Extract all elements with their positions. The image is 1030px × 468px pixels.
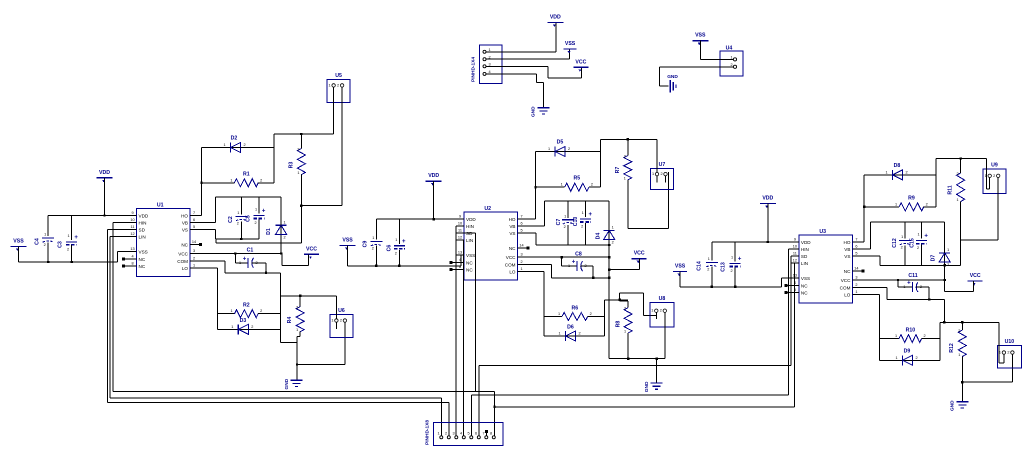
wire C15 top lead xyxy=(921,222,923,239)
svg-text:6: 6 xyxy=(855,245,857,249)
svg-text:2: 2 xyxy=(260,309,262,313)
svg-text:1: 1 xyxy=(548,147,550,151)
svg-text:13: 13 xyxy=(458,251,462,255)
power VSS (U3) xyxy=(673,264,687,277)
junction C2 bottom xyxy=(240,238,242,240)
svg-text:2: 2 xyxy=(660,309,662,313)
svg-text:NC: NC xyxy=(844,269,851,274)
diode D1 xyxy=(266,220,287,239)
svg-text:10: 10 xyxy=(130,218,134,222)
svg-text:+: + xyxy=(572,260,576,266)
svg-text:6: 6 xyxy=(520,222,522,226)
wire U2.VCC line xyxy=(525,256,609,258)
svg-text:7: 7 xyxy=(855,238,857,242)
junction D1/VCC xyxy=(280,252,282,254)
svg-text:LIN: LIN xyxy=(139,235,146,240)
junction C1/COM xyxy=(265,272,267,274)
wire bus A (HIN1) xyxy=(113,392,795,407)
power VCC (U3) xyxy=(968,273,983,286)
junction gnd2 drop xyxy=(655,358,657,360)
capacitor C4 xyxy=(35,233,55,248)
junction rail3/R11 xyxy=(959,157,961,159)
resistor R6 xyxy=(558,306,592,321)
svg-text:HIN: HIN xyxy=(466,224,474,229)
svg-text:C3: C3 xyxy=(58,241,64,248)
wire VS extension xyxy=(216,239,301,243)
junction C11 drop xyxy=(897,279,899,281)
svg-text:VDD: VDD xyxy=(99,170,110,176)
svg-text:U9: U9 xyxy=(991,162,998,168)
wire D4 cathode up xyxy=(608,201,610,230)
svg-text:12: 12 xyxy=(130,232,134,236)
wire pin8 drop xyxy=(494,407,496,436)
junction R3/U5.2 xyxy=(300,204,302,206)
wire VDD1 down xyxy=(104,178,106,216)
svg-text:2: 2 xyxy=(624,307,626,311)
svg-text:C9: C9 xyxy=(363,241,369,248)
capacitor C12 xyxy=(892,235,911,250)
svg-text:D4: D4 xyxy=(596,233,602,240)
diode D9 xyxy=(895,349,917,366)
svg-text:C13: C13 xyxy=(721,262,727,272)
svg-text:VS: VS xyxy=(509,231,515,236)
capacitor C8 xyxy=(568,252,587,272)
wire R12 top lead xyxy=(961,322,963,330)
svg-text:1: 1 xyxy=(855,290,857,294)
svg-text:SD: SD xyxy=(139,228,146,233)
svg-text:6: 6 xyxy=(193,218,195,222)
wire VCC1 loop xyxy=(282,254,308,266)
wire R11 top lead xyxy=(960,159,962,173)
wire U3.VB to rail xyxy=(860,222,945,249)
svg-text:VSS: VSS xyxy=(565,41,576,47)
wire VDD2 rail xyxy=(376,218,456,220)
wire U3.VS to caps xyxy=(860,256,961,265)
svg-text:HIN: HIN xyxy=(139,221,147,226)
svg-text:2: 2 xyxy=(296,306,298,310)
wire HO2 to R5.1 xyxy=(536,186,565,188)
junction C11/COM3 xyxy=(928,298,930,300)
wire C6 top lead xyxy=(398,219,400,244)
capacitor C11 xyxy=(903,273,922,292)
resistor R4 xyxy=(287,306,304,333)
svg-text:2: 2 xyxy=(284,235,286,239)
svg-text:3: 3 xyxy=(453,432,455,436)
svg-text:2: 2 xyxy=(926,202,928,206)
resistor R11 xyxy=(948,172,965,202)
svg-text:2: 2 xyxy=(905,170,907,174)
svg-text:U8: U8 xyxy=(659,296,666,302)
svg-text:R1: R1 xyxy=(243,172,250,178)
svg-text:1: 1 xyxy=(193,264,195,268)
svg-text:5: 5 xyxy=(520,229,522,233)
wire U9 pin1 up xyxy=(986,159,989,190)
junction rail2/R7 xyxy=(627,138,629,140)
power VSS (top) xyxy=(564,41,577,54)
svg-text:HO: HO xyxy=(509,217,516,222)
svg-text:NC: NC xyxy=(801,291,808,296)
svg-text:VS: VS xyxy=(844,254,850,259)
svg-text:1: 1 xyxy=(44,233,46,237)
wire COM down xyxy=(280,273,282,343)
svg-text:3: 3 xyxy=(193,249,195,253)
junction COM2 rail xyxy=(608,277,610,279)
wire C11 right lead xyxy=(916,287,929,299)
svg-text:HIN: HIN xyxy=(801,247,809,252)
svg-text:2: 2 xyxy=(255,221,257,225)
wire VS3 upper rail xyxy=(961,239,999,241)
svg-text:14: 14 xyxy=(854,267,858,271)
svg-text:2: 2 xyxy=(591,183,593,187)
wire LO2 to R6.1 xyxy=(544,316,562,318)
svg-text:COM: COM xyxy=(177,259,188,264)
wire U3.SD to bus xyxy=(790,256,792,365)
junction gate2/R8 xyxy=(618,299,620,301)
svg-text:VSS: VSS xyxy=(13,239,24,245)
diode D4 xyxy=(596,225,615,244)
svg-text:1: 1 xyxy=(612,225,614,229)
svg-text:+: + xyxy=(402,239,406,245)
svg-text:3: 3 xyxy=(520,253,522,257)
svg-text:R5: R5 xyxy=(573,176,580,182)
wire U1.VB to rail xyxy=(198,197,282,223)
power VDD (U1) xyxy=(97,170,113,183)
diode D5 xyxy=(548,140,570,157)
svg-text:NC: NC xyxy=(509,246,516,251)
junction VDD2 xyxy=(433,218,435,220)
wire gate2 node xyxy=(605,300,628,336)
svg-text:+: + xyxy=(907,281,911,287)
connector U5 xyxy=(327,73,350,103)
svg-text:LO: LO xyxy=(509,270,516,275)
resistor R12 xyxy=(949,329,966,357)
wire C9 bottom lead xyxy=(375,246,377,266)
svg-text:NC: NC xyxy=(466,268,473,273)
capacitor C3 xyxy=(58,234,79,252)
wire U2.LO xyxy=(525,272,544,336)
wire C3 bottom lead xyxy=(71,245,73,262)
diode D7 xyxy=(931,248,951,267)
junction rail/R3 xyxy=(300,133,302,135)
svg-text:C5: C5 xyxy=(246,215,252,222)
resistor R8 xyxy=(616,307,633,334)
wire HO3 to R9.1 xyxy=(864,206,899,208)
svg-text:2: 2 xyxy=(957,172,959,176)
svg-text:VB: VB xyxy=(182,221,188,226)
svg-text:1: 1 xyxy=(395,238,397,242)
svg-text:R8: R8 xyxy=(616,321,622,328)
svg-text:13: 13 xyxy=(130,247,134,251)
svg-text:1: 1 xyxy=(255,208,257,212)
wire C2 bottom lead xyxy=(240,222,242,240)
svg-text:9: 9 xyxy=(131,211,133,215)
capacitor C14 xyxy=(697,257,718,272)
svg-text:7: 7 xyxy=(520,215,522,219)
svg-text:1: 1 xyxy=(237,211,239,215)
resistor R2 xyxy=(230,303,262,318)
wire bus E (pin6) xyxy=(479,365,791,435)
junction D7/VCC3 xyxy=(944,279,946,281)
svg-text:2: 2 xyxy=(917,246,919,250)
ground (below J1) xyxy=(531,106,550,117)
svg-text:U4: U4 xyxy=(726,46,733,52)
resistor R10 xyxy=(895,328,926,343)
svg-text:VSS: VSS xyxy=(466,253,475,258)
junction HO2/R5 xyxy=(534,186,536,188)
svg-text:GND: GND xyxy=(531,106,537,117)
power VSS (U1) xyxy=(11,239,27,252)
resistor R5 xyxy=(561,176,593,192)
capacitor C7 xyxy=(556,214,574,229)
capacitor C6 xyxy=(387,238,407,256)
wire bus B (LIN1) xyxy=(110,398,441,436)
wire C5 top lead xyxy=(258,197,260,214)
diode D2 xyxy=(223,136,245,153)
wire C6 bottom lead xyxy=(398,250,400,266)
svg-text:5: 5 xyxy=(855,252,857,256)
svg-text:1: 1 xyxy=(895,356,897,360)
svg-text:D5: D5 xyxy=(557,140,564,146)
svg-text:VB: VB xyxy=(844,247,850,252)
wire C12 top lead xyxy=(904,222,906,239)
svg-text:2: 2 xyxy=(237,222,239,226)
wire R6.2 to gate2 xyxy=(588,316,605,318)
svg-text:1: 1 xyxy=(329,83,331,87)
connector U6 xyxy=(330,308,353,338)
svg-text:1: 1 xyxy=(297,171,299,175)
svg-text:VDD: VDD xyxy=(466,217,476,222)
svg-text:2: 2 xyxy=(260,178,262,182)
capacitor C2 xyxy=(228,211,248,226)
wire U1.VS to caps xyxy=(198,230,260,240)
svg-text:D7: D7 xyxy=(931,255,937,262)
svg-text:VCC: VCC xyxy=(178,252,188,257)
wire C5 bottom lead xyxy=(258,220,260,240)
wire node X up to rail xyxy=(274,134,334,183)
svg-text:1: 1 xyxy=(895,202,897,206)
power VDD (top) xyxy=(547,14,563,27)
junction C8 drop xyxy=(560,256,562,258)
svg-text:LO: LO xyxy=(844,293,851,298)
svg-text:D2: D2 xyxy=(231,136,238,142)
svg-text:1: 1 xyxy=(957,198,959,202)
svg-text:SD: SD xyxy=(801,254,808,259)
resistor R3 xyxy=(289,148,306,176)
svg-text:2: 2 xyxy=(395,251,397,255)
wire C14 bottom lead xyxy=(711,267,713,287)
wire gnd2 rail xyxy=(609,358,665,360)
svg-text:2: 2 xyxy=(624,155,626,159)
junction C14 bottom xyxy=(711,286,713,288)
svg-text:R12: R12 xyxy=(949,343,955,353)
svg-text:VB: VB xyxy=(509,224,515,229)
junction COM3 rail xyxy=(943,321,945,323)
wire R10.2 to gate3 xyxy=(922,338,940,340)
ground GND (U1 block) xyxy=(284,378,303,389)
svg-text:LO: LO xyxy=(182,266,189,271)
IC U2 gate driver xyxy=(450,206,530,280)
svg-text:8: 8 xyxy=(490,432,492,436)
junction R4 top xyxy=(299,295,301,297)
svg-text:D9: D9 xyxy=(904,349,911,355)
svg-text:2: 2 xyxy=(993,174,995,178)
svg-text:VCC: VCC xyxy=(970,273,981,279)
wire VDD2 down xyxy=(433,181,435,219)
svg-text:VSS: VSS xyxy=(695,33,706,39)
svg-text:PINHD-1X8: PINHD-1X8 xyxy=(425,420,431,445)
svg-text:+: + xyxy=(262,209,266,215)
wire jog VS3 xyxy=(960,240,962,265)
junction VDD1 xyxy=(103,214,105,216)
svg-text:2: 2 xyxy=(578,332,580,336)
svg-text:1: 1 xyxy=(564,214,566,218)
svg-text:C15: C15 xyxy=(910,238,916,248)
capacitor C9 xyxy=(363,236,383,251)
svg-text:D3: D3 xyxy=(240,318,247,324)
svg-text:R9: R9 xyxy=(908,196,915,202)
svg-text:D8: D8 xyxy=(894,163,901,169)
svg-text:2: 2 xyxy=(564,225,566,229)
power VSS (U4) xyxy=(692,33,708,46)
svg-text:VDD: VDD xyxy=(550,14,561,20)
wire VSS to U4 pin1 xyxy=(700,41,733,60)
svg-text:C1: C1 xyxy=(247,248,254,254)
svg-text:1: 1 xyxy=(918,233,920,237)
capacitor C13 xyxy=(721,256,742,274)
svg-text:1: 1 xyxy=(651,309,653,313)
wire U3.COM xyxy=(860,287,944,322)
wire J1 pin3 to VCC xyxy=(486,66,582,78)
connector U8 xyxy=(650,296,674,327)
svg-text:VSS: VSS xyxy=(801,276,810,281)
wire source3 rail to U10.2 xyxy=(962,361,1012,382)
wire D3.2 to gate node xyxy=(248,328,280,330)
wire R3 top lead xyxy=(300,134,302,149)
svg-text:2: 2 xyxy=(660,172,662,176)
svg-text:U3: U3 xyxy=(819,229,826,235)
svg-text:2: 2 xyxy=(243,143,245,147)
wire U10 pin1 up xyxy=(999,322,1004,363)
wire U1.VCC line xyxy=(198,253,283,255)
svg-text:1: 1 xyxy=(901,235,903,239)
stub pin7 unconnected xyxy=(485,430,488,436)
svg-text:NC: NC xyxy=(139,264,146,269)
wire C4 top lead xyxy=(47,216,49,237)
wire LO3 to R10.1 xyxy=(880,338,900,340)
wire U3.HIN to bus xyxy=(788,249,791,395)
capacitor C10 xyxy=(573,211,592,229)
wire J1 pin1 to VDD xyxy=(486,22,556,51)
svg-text:VSS: VSS xyxy=(675,264,686,270)
svg-text:U7: U7 xyxy=(659,162,666,168)
svg-text:+: + xyxy=(243,256,247,262)
svg-text:VCC: VCC xyxy=(841,278,851,283)
svg-text:C6: C6 xyxy=(387,245,393,252)
svg-text:1: 1 xyxy=(230,309,232,313)
svg-text:2: 2 xyxy=(251,325,253,329)
wire R8 bottom xyxy=(627,333,629,359)
svg-text:1: 1 xyxy=(230,178,232,182)
svg-text:8: 8 xyxy=(131,262,133,266)
svg-text:U5: U5 xyxy=(335,73,342,79)
capacitor C1 xyxy=(239,248,258,268)
svg-text:VDD: VDD xyxy=(139,214,149,219)
svg-text:GND: GND xyxy=(284,378,290,389)
svg-text:11: 11 xyxy=(793,252,797,256)
svg-text:NC: NC xyxy=(801,284,808,289)
wire R4 top lead xyxy=(299,296,301,307)
svg-text:VDD: VDD xyxy=(801,240,811,245)
wire U4 pin2 to GND xyxy=(660,67,734,86)
svg-text:4: 4 xyxy=(131,255,133,259)
wire C4 bottom lead xyxy=(47,243,49,263)
svg-text:14: 14 xyxy=(192,240,196,244)
svg-text:2: 2 xyxy=(915,356,917,360)
svg-text:VCC: VCC xyxy=(634,251,645,257)
wire D1 cathode up xyxy=(280,197,282,226)
wire R2.2 to gate node xyxy=(258,313,281,315)
wire C7 bottom lead xyxy=(567,225,569,245)
svg-text:C8: C8 xyxy=(575,252,582,258)
svg-text:10: 10 xyxy=(458,222,462,226)
wire VDD3 rail xyxy=(712,241,792,243)
junction VS3/D7 xyxy=(944,264,946,266)
connector U10 xyxy=(997,339,1021,368)
junction C3 bottom xyxy=(70,261,72,263)
svg-text:2: 2 xyxy=(731,269,733,273)
wire U1.SD to bus xyxy=(107,230,129,403)
connector U9 xyxy=(983,162,1006,193)
wire gnd2 stem xyxy=(656,359,658,383)
wire C2 top lead xyxy=(240,197,242,215)
junction HO/R1 xyxy=(200,182,202,184)
junction HO3/R9 xyxy=(863,206,865,208)
svg-text:1: 1 xyxy=(231,325,233,329)
svg-text:2: 2 xyxy=(44,243,46,247)
wire U3.HO up xyxy=(860,175,893,242)
wire U2.VS to caps xyxy=(525,233,609,245)
junction C9 bottom xyxy=(375,265,377,267)
wire U2.HO up xyxy=(525,152,555,220)
svg-text:U1: U1 xyxy=(157,203,164,209)
wire LO3 to D9.1 xyxy=(880,359,903,361)
svg-text:2: 2 xyxy=(1007,351,1009,355)
wire C10 top lead xyxy=(585,201,587,217)
svg-text:VDD: VDD xyxy=(428,173,439,179)
svg-text:R4: R4 xyxy=(287,317,293,324)
svg-text:1: 1 xyxy=(558,312,560,316)
wire node3 up to rail xyxy=(936,159,986,207)
wire U2.COM xyxy=(525,265,609,278)
svg-text:NC: NC xyxy=(181,243,188,248)
wire VCC3 loop xyxy=(945,281,974,292)
wire R11 bottom xyxy=(960,202,962,240)
svg-text:2: 2 xyxy=(372,247,374,251)
svg-text:14: 14 xyxy=(519,244,523,248)
ground GND (U3 block) xyxy=(950,400,969,411)
svg-text:1: 1 xyxy=(885,170,887,174)
junction C13 bottom xyxy=(734,286,736,288)
svg-text:12: 12 xyxy=(458,236,462,240)
svg-text:U6: U6 xyxy=(338,308,345,314)
svg-text:2: 2 xyxy=(340,319,342,323)
svg-text:2: 2 xyxy=(568,147,570,151)
junction VS2/D4 xyxy=(608,244,610,246)
wire VDD rail to U1.VDD xyxy=(48,215,129,217)
power VSS (U2) xyxy=(340,238,356,251)
svg-text:10: 10 xyxy=(793,245,797,249)
wire R4 bottom jog xyxy=(297,332,300,380)
